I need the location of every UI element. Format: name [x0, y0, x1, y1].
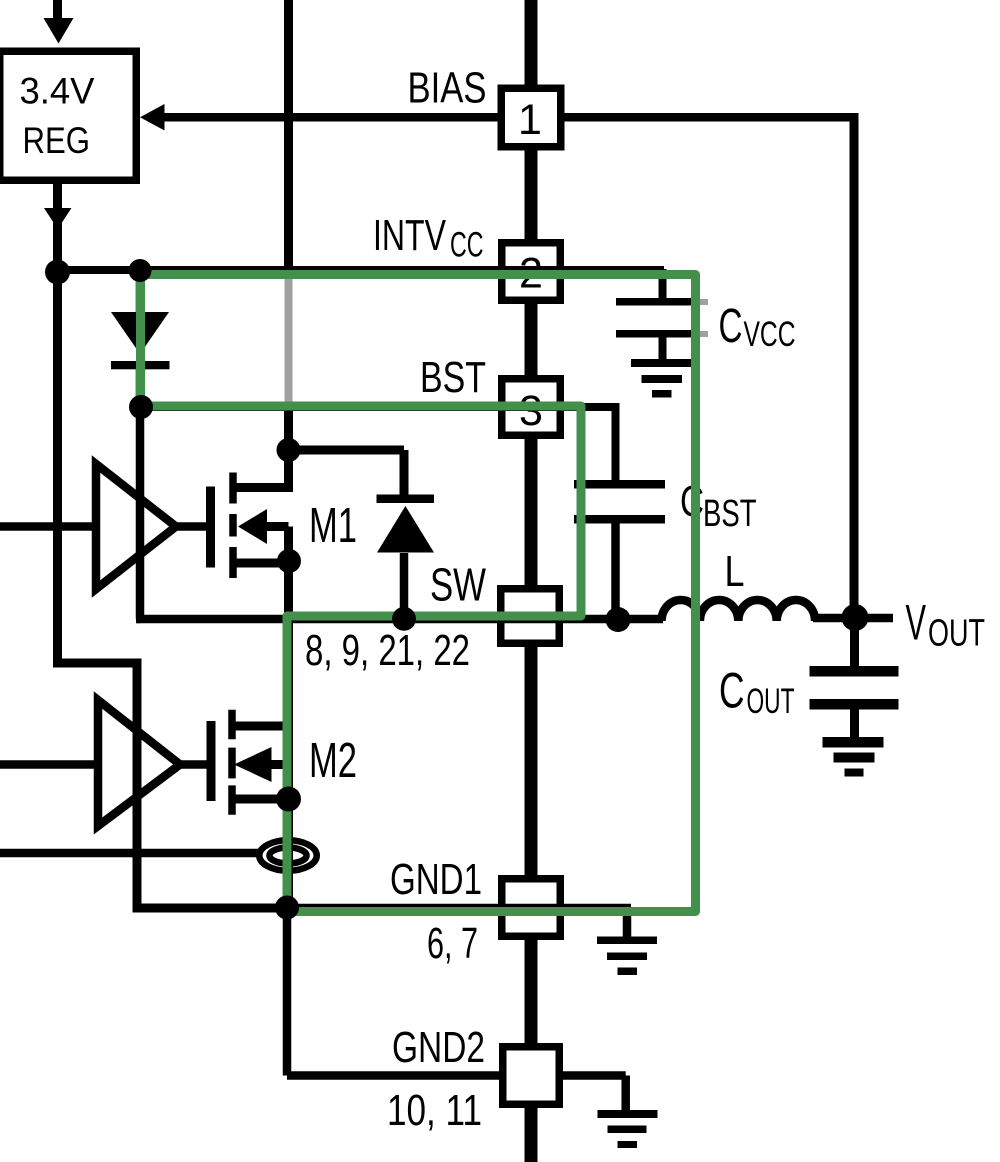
wire: driver U2 input	[0, 760, 98, 769]
svg-text:C: C	[719, 300, 743, 353]
pin box SW	[501, 589, 560, 644]
arrowhead into REG top	[44, 18, 74, 44]
wire: BST rail	[140, 404, 620, 480]
wire: GND2 to ground	[560, 1076, 626, 1112]
arrowhead on REG output	[44, 208, 72, 229]
M1 source lead	[233, 561, 289, 619]
gray idle segment x=288 between INTVCC and BST	[285, 274, 293, 403]
svg-text:1: 1	[518, 96, 542, 144]
green highlighted bootstrap current loop	[141, 275, 696, 912]
M2 body arrow	[234, 747, 272, 782]
node: D2 anode at SW	[392, 607, 416, 631]
M1 body arrow	[238, 509, 267, 544]
node: D1 cathode / BST	[129, 395, 153, 419]
svg-text:OUT: OUT	[928, 613, 985, 655]
wire: sense line from left	[0, 849, 259, 858]
wire: driver U1 input	[0, 522, 96, 531]
gray plate stubs (CVCC)	[697, 299, 708, 305]
node: VOUT	[842, 604, 869, 631]
ground (GND1)	[623, 908, 632, 938]
gate driver U1	[96, 464, 176, 589]
ground (CVCC)	[631, 359, 691, 367]
M2 source lead	[232, 795, 289, 804]
svg-text:SW: SW	[430, 559, 486, 611]
svg-text:BIAS: BIAS	[408, 64, 487, 113]
wire: BIAS corner down to VOUT node	[850, 113, 859, 618]
svg-text:M1: M1	[309, 499, 357, 553]
svg-text:L: L	[725, 547, 745, 596]
node: SW / CBST junction	[606, 607, 631, 632]
svg-text:6, 7: 6, 7	[427, 919, 478, 968]
wire: REG output down	[53, 184, 62, 270]
inductor L	[662, 600, 816, 621]
pin box GND2	[503, 1047, 560, 1105]
wire: left rail x=57 down to driver area	[53, 270, 288, 908]
M2 drain lead	[232, 722, 289, 731]
capacitor CVCC	[616, 298, 692, 306]
wire: BIAS line into REG right side	[160, 113, 854, 122]
svg-text:GND1: GND1	[390, 855, 482, 904]
M1 drain lead	[233, 407, 289, 492]
vertical line x=288 upper segment	[284, 0, 293, 271]
current sense rings	[259, 840, 317, 871]
capacitor CBST	[574, 480, 665, 489]
node: GND1 corner	[275, 896, 299, 920]
bold IC pin column (net VIN) x=531	[525, 0, 538, 1162]
capacitor COUT	[850, 617, 859, 667]
svg-text:V: V	[906, 595, 927, 651]
ground (COUT)	[823, 737, 884, 748]
node: INTVCC junction at left rail	[45, 260, 70, 285]
svg-text:8, 9, 21, 22: 8, 9, 21, 22	[305, 626, 470, 675]
wire: GND1 rail	[137, 904, 631, 913]
3.4V REG block	[0, 51, 136, 180]
svg-text:M2: M2	[309, 734, 357, 788]
arrowhead into REG right	[140, 104, 165, 131]
svg-text:BST: BST	[703, 493, 757, 535]
wire: GND2 rail	[287, 903, 502, 1076]
node: M2 source/body	[276, 787, 301, 812]
pin 1 box (BIAS)	[501, 88, 561, 147]
svg-text:CC: CC	[450, 226, 484, 265]
transistor M1	[206, 487, 215, 568]
svg-text:OUT: OUT	[747, 682, 795, 721]
svg-text:GND2: GND2	[392, 1023, 485, 1072]
svg-text:C: C	[719, 663, 745, 719]
svg-text:REG: REG	[23, 120, 91, 161]
diode D2 (SW schottky)	[289, 450, 405, 497]
svg-text:VCC: VCC	[744, 315, 796, 354]
wire: input into 3.4V REG from top	[53, 0, 62, 20]
node: M1 drain	[277, 438, 301, 462]
svg-text:3.4V: 3.4V	[20, 71, 95, 112]
svg-text:10, 11: 10, 11	[387, 1086, 482, 1135]
wire: driver U1 output to M1 gate	[172, 522, 206, 531]
pin box GND1	[502, 879, 561, 937]
wire: driver U2 output to M2 gate	[176, 760, 207, 769]
wire: M2 drain-source column (SW to GND1)	[284, 619, 293, 908]
wire: BST/diode branch down to SW corner	[136, 407, 140, 619]
pin 2 box (INTVCC)	[502, 243, 561, 301]
diode D1 (INTVCC to BST)	[136, 270, 145, 407]
node: D1 anode	[129, 259, 152, 282]
wire: INTVCC rail	[58, 269, 665, 298]
gate driver U2	[98, 700, 180, 826]
wire: SW rail	[137, 618, 893, 619]
pin 3 box (BST)	[502, 379, 561, 436]
ground (GND2)	[598, 1110, 658, 1118]
svg-text:INTV: INTV	[373, 211, 446, 260]
transistor M2	[207, 721, 216, 801]
svg-text:BST: BST	[420, 353, 486, 402]
node: M1 source/body	[277, 549, 301, 573]
